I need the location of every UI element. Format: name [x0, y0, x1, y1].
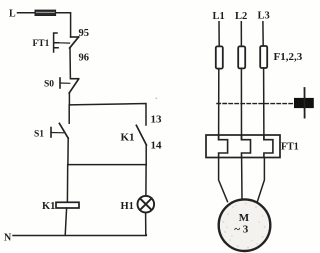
- wire L1 to fuse F1: [218, 22, 220, 47]
- wire junction to K1 aux contact branch: [69, 104, 146, 126]
- wire L2 to fuse F2: [240, 22, 242, 47]
- contactor aux contact K1 (NO) blade: [136, 125, 146, 145]
- wire lamp to N bus: [145, 213, 147, 236]
- svg-text:95: 95: [79, 28, 90, 39]
- S1 NO contact blade: [59, 123, 68, 138]
- svg-text:S1: S1: [34, 130, 44, 140]
- contactor coil K1: [56, 202, 79, 208]
- svg-text:~ 3: ~ 3: [234, 223, 248, 235]
- svg-text:96: 96: [79, 53, 90, 64]
- breaker handle shaft: [304, 88, 306, 118]
- wire F1 to overload block: [218, 69, 220, 140]
- indicator lamp H1: [138, 196, 155, 213]
- svg-text:N: N: [4, 232, 12, 243]
- pushbutton S0 plunger: [60, 78, 70, 88]
- wire S0 to junction: [68, 93, 70, 105]
- wire element 1 to motor: [219, 158, 228, 202]
- fuse FU (control circuit): [35, 10, 56, 15]
- svg-text:L: L: [9, 9, 16, 20]
- wire F2 to overload block: [240, 68, 242, 139]
- svg-text:K1: K1: [42, 201, 55, 212]
- wire coil to N bus: [65, 208, 66, 235]
- svg-text:14: 14: [151, 140, 163, 152]
- wire FT1 to S0: [69, 48, 71, 79]
- wire L to fuse FU: [18, 12, 36, 14]
- svg-text:L1: L1: [213, 11, 225, 22]
- svg-text:FT1: FT1: [281, 141, 299, 152]
- FT1 NC contact blade: [70, 37, 79, 48]
- heater element 1: [219, 136, 228, 157]
- wire tie to lamp H1: [145, 165, 147, 196]
- breaker handle (black block): [294, 98, 314, 108]
- S0 NC contact tick: [71, 78, 79, 80]
- svg-text:F1,2,3: F1,2,3: [274, 51, 303, 63]
- wire S1 to tie: [67, 138, 69, 165]
- motor M body: [219, 199, 271, 251]
- svg-text:FT1: FT1: [33, 39, 50, 49]
- wire tie to coil K1: [66, 165, 68, 203]
- heater element 3: [264, 136, 273, 157]
- wire L3 to fuse F3: [262, 22, 264, 46]
- wire junction down to S1: [68, 105, 70, 123]
- S0 NC contact blade: [69, 79, 78, 93]
- fuse F3: [260, 46, 267, 68]
- svg-text:K1: K1: [121, 131, 135, 143]
- wire element 2 to motor: [241, 158, 243, 200]
- dashed trip linkage to breaker handle: [217, 103, 294, 105]
- svg-text:H1: H1: [121, 201, 134, 212]
- FT1 NC contact tick (pin 95 side): [71, 36, 79, 38]
- fuse F2: [238, 46, 245, 68]
- svg-text:L2: L2: [235, 11, 247, 22]
- svg-text:M: M: [239, 212, 250, 224]
- wire K1 contact to tie: [145, 145, 147, 165]
- wire fuse to corner and down to FT1 contact: [56, 13, 71, 37]
- N bus wire: [13, 234, 146, 237]
- heater element 2: [242, 136, 251, 157]
- svg-text:S0: S0: [44, 79, 54, 89]
- paper speck: [156, 98, 158, 100]
- thermal trip element FT1 (bracket + actuator): [54, 33, 70, 52]
- svg-text:L3: L3: [258, 11, 270, 22]
- svg-text:13: 13: [151, 113, 163, 125]
- wire F3 to overload block: [263, 68, 265, 140]
- pushbutton S1 plunger: [51, 128, 64, 138]
- fuse F1: [216, 46, 223, 68]
- thermal overload relay FT1 block outline: [206, 135, 280, 158]
- tie wire joining parallel branches: [68, 164, 146, 166]
- wire element 3 to motor: [257, 158, 264, 202]
